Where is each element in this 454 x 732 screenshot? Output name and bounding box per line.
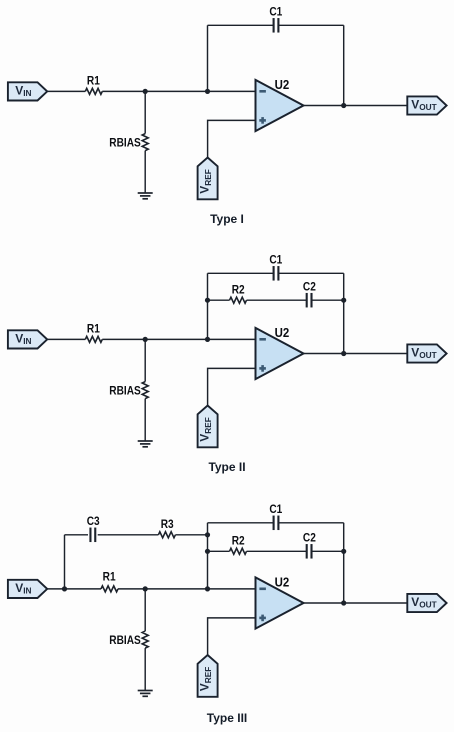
svg-text:C1: C1 [269, 504, 282, 517]
svg-text:R2: R2 [232, 284, 245, 297]
svg-text:U2: U2 [275, 575, 290, 590]
svg-text:C2: C2 [303, 281, 316, 294]
svg-text:U2: U2 [275, 77, 290, 92]
svg-text:R3: R3 [161, 519, 174, 532]
svg-text:C1: C1 [269, 6, 282, 19]
svg-text:C3: C3 [87, 516, 100, 529]
svg-text:R1: R1 [87, 75, 100, 88]
svg-text:R1: R1 [103, 571, 116, 584]
svg-text:Type III: Type III [207, 711, 247, 725]
svg-text:Type II: Type II [208, 460, 245, 474]
svg-text:Type I: Type I [210, 212, 244, 226]
svg-text:C2: C2 [303, 532, 316, 545]
svg-text:R2: R2 [232, 535, 245, 548]
svg-text:RBIAS: RBIAS [109, 635, 140, 648]
svg-text:C1: C1 [269, 254, 282, 267]
svg-text:RBIAS: RBIAS [109, 385, 140, 398]
svg-text:RBIAS: RBIAS [109, 137, 140, 150]
svg-text:U2: U2 [275, 325, 290, 340]
svg-text:R1: R1 [87, 323, 100, 336]
